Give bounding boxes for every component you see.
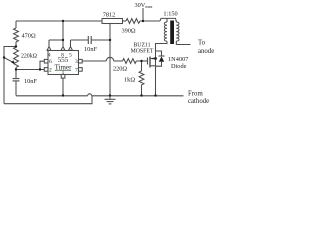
svg-text:10nF: 10nF <box>84 46 97 53</box>
svg-text:220Ω: 220Ω <box>113 66 127 73</box>
svg-text:anode: anode <box>198 48 214 55</box>
svg-text:MOSFET: MOSFET <box>131 49 154 55</box>
svg-text:7: 7 <box>75 67 78 73</box>
svg-text:Diode: Diode <box>171 63 187 70</box>
svg-text:4: 4 <box>48 53 51 59</box>
svg-text:10nF: 10nF <box>24 78 37 85</box>
svg-text:220kΩ: 220kΩ <box>21 54 38 60</box>
svg-text:7812: 7812 <box>103 12 116 19</box>
svg-text:6: 6 <box>49 59 52 65</box>
svg-text:From: From <box>188 91 203 98</box>
svg-text:1N4007: 1N4007 <box>168 56 188 63</box>
svg-text:cathode: cathode <box>188 98 209 105</box>
svg-text:1kΩ: 1kΩ <box>124 77 135 84</box>
svg-text:2: 2 <box>49 67 52 73</box>
svg-text:390Ω: 390Ω <box>121 28 135 35</box>
svg-text:3: 3 <box>75 59 78 65</box>
svg-text:470Ω: 470Ω <box>22 33 36 40</box>
svg-text:To: To <box>198 40 206 47</box>
svg-text:1:150: 1:150 <box>163 11 177 18</box>
svg-text:30Vmax: 30Vmax <box>134 2 153 9</box>
svg-text:5: 5 <box>69 53 72 59</box>
